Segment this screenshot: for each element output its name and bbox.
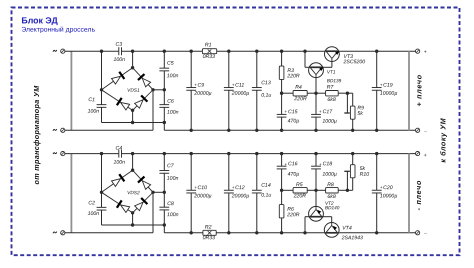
svg-text:20000µ: 20000µ — [231, 193, 249, 199]
svg-text:C7: C7 — [167, 163, 175, 169]
capacitor C2 — [97, 206, 107, 208]
wire R7 to R9 — [338, 92, 353, 94]
svg-text:C16: C16 — [288, 161, 298, 167]
node A R3/R4/C15 — [280, 92, 283, 95]
svg-text:C19: C19 — [383, 83, 393, 89]
node C12 bottom — [227, 231, 230, 234]
svg-text:0R33: 0R33 — [203, 54, 216, 60]
svg-text:Блок ЭД: Блок ЭД — [21, 15, 58, 25]
svg-text:+: + — [319, 109, 322, 114]
wire AC bottom rail 2 left — [65, 232, 153, 234]
svg-text:R4: R4 — [295, 85, 302, 91]
node DC2 bridge column — [131, 223, 134, 226]
capacitor C11 20000u — [228, 51, 230, 88]
terminal X1 AC in top-left — [61, 49, 65, 53]
connector bus left top section — [70, 51, 72, 130]
wire bottom top rail C4 to terminal — [122, 153, 416, 155]
wire C2 column — [101, 154, 103, 208]
node bridge top column — [131, 50, 134, 53]
node R8/R10/wiper junction — [346, 189, 349, 192]
capacitor C6 — [159, 104, 169, 106]
svg-text:100n: 100n — [167, 73, 179, 79]
node VDS2 right corner — [151, 191, 154, 194]
svg-text:C4: C4 — [115, 146, 122, 152]
node C9 top — [190, 50, 193, 53]
svg-text:220R: 220R — [286, 212, 300, 218]
svg-text:C12: C12 — [235, 185, 245, 191]
capacitor C5 — [159, 67, 169, 69]
svg-text:+: + — [424, 153, 427, 159]
svg-text:C6: C6 — [167, 99, 174, 105]
svg-text:470µ: 470µ — [288, 118, 300, 124]
wire top rail left of C3 — [65, 50, 119, 52]
node R6 bottom — [280, 231, 283, 234]
svg-text:R7: R7 — [327, 85, 335, 91]
resistor R10 5k trimmer — [350, 165, 355, 178]
resistor R7 6k8 — [316, 92, 326, 94]
capacitor C20 10000u — [376, 154, 378, 191]
svg-text:C18: C18 — [323, 161, 333, 167]
wire bridge bottom corner drop — [132, 110, 134, 122]
node C13 top — [255, 50, 258, 53]
wire C1 column — [101, 51, 103, 105]
diode VDS2 top-right — [138, 177, 151, 190]
svg-text:100n: 100n — [167, 212, 179, 218]
diode VDS1 bottom-right — [134, 95, 147, 108]
wire C8 column — [163, 192, 165, 207]
svg-text:C15: C15 — [288, 109, 298, 115]
wire VT1 collector to rail — [305, 66, 309, 68]
capacitor C17 1000u — [315, 93, 317, 114]
node VDS1 right corner — [151, 88, 154, 91]
node top rail / C1 column — [100, 50, 103, 53]
wire bottom top rail left of C4 — [65, 153, 119, 155]
svg-text:2SA1943: 2SA1943 — [341, 235, 363, 241]
svg-text:+ плечо: + плечо — [414, 74, 423, 106]
wire VDS1 right corner to C5/C6 node — [153, 89, 164, 91]
terminal - common out — [416, 128, 420, 132]
svg-text:220R: 220R — [286, 73, 300, 79]
svg-text:0,1u: 0,1u — [261, 93, 271, 99]
transistor VT2 BD140 — [309, 206, 324, 221]
svg-text:6k8: 6k8 — [327, 97, 335, 103]
svg-text:100n: 100n — [167, 176, 179, 182]
node VDS1 bottom corner — [131, 109, 134, 112]
terminal - pleco out — [416, 231, 420, 235]
node R7/R9/wiper junction — [346, 92, 349, 95]
svg-text:C9: C9 — [197, 83, 204, 89]
svg-text:C3: C3 — [115, 42, 122, 48]
connector bus right bottom section — [408, 154, 410, 233]
resistor R5 220R — [293, 188, 307, 193]
node C12 top — [227, 152, 230, 155]
diode VDS1 bottom-left — [117, 98, 130, 111]
node R10 top — [351, 152, 354, 155]
svg-text:–: – — [424, 128, 427, 134]
svg-text:C1: C1 — [88, 97, 95, 103]
node C19 bottom — [375, 129, 378, 132]
node C18 top — [314, 152, 317, 155]
svg-text:2SC5200: 2SC5200 — [342, 59, 365, 65]
connector bus left bottom section — [70, 154, 72, 233]
svg-text:VDS1: VDS1 — [127, 88, 140, 94]
resistor R6 220R — [281, 190, 283, 204]
svg-text:Электронный дроссель: Электронный дроссель — [21, 26, 95, 34]
terminal + pleco out — [416, 49, 420, 53]
node C17 bottom — [314, 129, 317, 132]
capacitor C1 — [97, 104, 107, 106]
wire R8 to R10 — [338, 189, 353, 191]
node C16 top — [280, 152, 283, 155]
wire node A2 to R5 — [282, 189, 294, 191]
wire C5 column — [163, 51, 165, 68]
resistor R1 — [202, 49, 216, 54]
svg-text:5k: 5k — [357, 111, 363, 117]
svg-text:100n: 100n — [113, 160, 125, 166]
capacitor C10 20000u — [190, 154, 192, 191]
node C11 bottom — [227, 129, 230, 132]
node C13 bottom — [255, 129, 258, 132]
svg-text:100n: 100n — [88, 211, 100, 217]
capacitor C19 10000u — [376, 51, 378, 88]
capacitor C12 20000u — [228, 154, 230, 191]
svg-text:C11: C11 — [235, 83, 244, 89]
node C14 bottom — [255, 231, 258, 234]
svg-text:BD139: BD139 — [327, 78, 342, 83]
node bridge2 top column — [131, 152, 134, 155]
node C11 top — [227, 50, 230, 53]
node DC2 C8 — [163, 223, 166, 226]
svg-text:C2: C2 — [88, 200, 95, 206]
node B VT1 base — [314, 92, 317, 95]
wire AC2 bottom rail left — [65, 129, 153, 131]
resistor R9 5k trimmer — [350, 106, 355, 119]
wire VDS2 right corner down to AC rail — [152, 192, 154, 233]
wire VT2 base — [315, 190, 317, 209]
node C9 bottom — [190, 129, 193, 132]
wire node A to R4 — [282, 92, 294, 94]
wire bridge2 top corner drop — [132, 154, 134, 171]
wire top rail C3 to R1 — [122, 50, 202, 52]
svg-text:C17: C17 — [323, 109, 334, 115]
node VDS2 bottom corner — [131, 211, 134, 214]
svg-text:C10: C10 — [197, 185, 207, 191]
bridge rectifier VDS1 — [102, 68, 154, 111]
svg-text:220R: 220R — [293, 193, 307, 199]
svg-text:20000µ: 20000µ — [193, 91, 211, 97]
svg-text:6k8: 6k8 — [327, 194, 335, 200]
svg-text:+: + — [319, 162, 322, 167]
wire DC-minus collector line — [102, 122, 165, 124]
wire R4 to node B — [307, 92, 316, 94]
node VT1 collector junction — [303, 50, 306, 53]
transistor VT1 BD139 — [309, 63, 324, 78]
capacitor C16 470u — [281, 154, 283, 167]
svg-text:C13: C13 — [261, 80, 271, 86]
wire DC-minus collector line 2 — [102, 224, 165, 226]
svg-text:R10: R10 — [360, 172, 370, 178]
svg-text:1000µ: 1000µ — [322, 119, 337, 125]
wire C6 column — [163, 90, 165, 105]
capacitor C18 1000u — [315, 154, 317, 167]
node C10 top — [190, 152, 193, 155]
svg-text:C5: C5 — [167, 61, 174, 67]
node C2 column top — [100, 152, 103, 155]
transistor VT3 2SC5200 — [325, 47, 340, 62]
wire output rail VT3 emitter — [339, 50, 415, 52]
wire DC2 step down — [163, 225, 165, 233]
connector bus right top section — [408, 51, 410, 130]
wire bridge top corner drop — [132, 51, 134, 67]
resistor R2 0R33 — [203, 230, 216, 235]
node C19 top — [375, 50, 378, 53]
wire C7 column — [163, 154, 165, 171]
wire VT2 collector to rail 2 — [305, 216, 309, 218]
bridge rectifier VDS2 — [102, 170, 154, 213]
node C7 top — [163, 152, 166, 155]
node R3 top — [280, 50, 283, 53]
svg-text:220R: 220R — [293, 96, 307, 102]
capacitor C3 — [118, 47, 120, 55]
node C10 bottom — [190, 231, 193, 234]
capacitor C8 — [159, 206, 169, 208]
wire VT1 emitter to VT3 base — [323, 66, 332, 68]
node VDS2 left corner — [100, 191, 103, 194]
svg-text:C14: C14 — [261, 183, 271, 189]
svg-text:100n: 100n — [88, 109, 100, 115]
wire R5 to node B2 — [307, 189, 316, 191]
svg-text:R2: R2 — [205, 225, 212, 231]
wiper of trimmer R9 — [346, 93, 348, 113]
diode VDS1 top-left — [111, 72, 124, 85]
wire bridge2 bottom corner drop — [132, 213, 134, 225]
diode VDS1 top-right — [138, 74, 151, 87]
node C5/C6 mid — [163, 88, 166, 91]
capacitor C4 — [118, 150, 120, 158]
svg-text:+: + — [284, 109, 287, 114]
capacitor C13 0,1u — [256, 51, 258, 88]
svg-text:0,1u: 0,1u — [261, 193, 271, 199]
node VDS1 top corner — [131, 66, 134, 69]
transistor VT4 2SA1943 — [324, 223, 339, 238]
svg-text:C8: C8 — [167, 201, 174, 207]
terminal + mid out — [416, 152, 420, 156]
svg-text:470µ: 470µ — [288, 172, 300, 178]
svg-text:R1: R1 — [205, 42, 212, 48]
wire VDS2 right corner to C7/C8 node — [153, 191, 164, 193]
resistor R4 220R — [293, 91, 307, 96]
svg-text:от трансформатора УМ: от трансформатора УМ — [32, 85, 41, 185]
svg-text:R8: R8 — [327, 182, 334, 188]
svg-text:VT4: VT4 — [342, 226, 352, 232]
wire top rail R1 to VT3 — [217, 50, 325, 52]
wire bottom rail 2 C8 to R2 — [164, 232, 203, 234]
terminal X2 AC in top-left lower — [61, 128, 65, 132]
svg-text:- плечо: - плечо — [414, 180, 423, 210]
svg-text:10000µ: 10000µ — [380, 91, 397, 97]
svg-text:+: + — [424, 49, 427, 55]
node C5 top — [163, 50, 166, 53]
resistor R3 220R — [281, 51, 283, 66]
node C15 bottom — [280, 129, 283, 132]
node VT2 collector junction — [303, 231, 306, 234]
svg-text:к блоку УМ: к блоку УМ — [439, 117, 448, 162]
svg-text:VDS2: VDS2 — [127, 190, 140, 196]
node DC-minus C6 — [163, 121, 166, 124]
svg-text:1000µ: 1000µ — [322, 172, 337, 178]
node R9 bottom — [351, 129, 354, 132]
wire bottom rail right part — [164, 129, 415, 131]
svg-text:100n: 100n — [167, 110, 179, 116]
wire VDS1 right corner down to AC2 rail — [152, 90, 154, 131]
diode VDS2 top-left — [111, 174, 124, 187]
svg-text:–: – — [424, 231, 427, 237]
wire output rail 2 VT4 — [339, 232, 415, 234]
svg-text:20000µ: 20000µ — [193, 193, 211, 199]
node B2 VT2 base — [314, 189, 317, 192]
svg-text:10000µ: 10000µ — [380, 193, 397, 199]
svg-text:20000µ: 20000µ — [231, 91, 249, 97]
node C14 top — [255, 152, 258, 155]
svg-text:+: + — [284, 162, 287, 167]
capacitor C14 0,1u — [256, 154, 258, 191]
node DC-minus bridge column — [131, 121, 134, 124]
wiper of trimmer R10 — [346, 171, 348, 190]
wire VT1 base — [315, 75, 317, 94]
svg-text:VT1: VT1 — [327, 70, 336, 75]
diode VDS2 bottom-right — [134, 198, 147, 211]
resistor R8 6k8 — [316, 189, 326, 191]
capacitor C9 20000u — [190, 51, 192, 88]
node VDS1 left corner — [100, 88, 103, 91]
node A2 R5/R6/C16 — [280, 189, 283, 192]
svg-text:BD140: BD140 — [325, 205, 340, 210]
node VDS2 top corner — [131, 169, 134, 172]
terminal X4 AC in bottom-left lower — [61, 231, 65, 235]
terminal X3 AC in bottom-left — [61, 152, 65, 156]
node C20 top — [375, 152, 378, 155]
capacitor C7 — [159, 170, 169, 172]
svg-text:100n: 100n — [113, 57, 125, 63]
svg-text:C20: C20 — [383, 185, 393, 191]
node C7/C8 mid — [163, 191, 166, 194]
wire bottom rail 2 R2 to VT4 — [216, 232, 324, 234]
wire DC-minus step down — [163, 123, 165, 131]
svg-text:R5: R5 — [296, 182, 303, 188]
diode VDS2 bottom-left — [117, 200, 130, 213]
capacitor C15 470u — [281, 93, 283, 114]
wire VT2 emitter to VT4 base — [323, 216, 332, 218]
node C20 bottom — [375, 231, 378, 234]
svg-text:0R33: 0R33 — [203, 235, 216, 241]
